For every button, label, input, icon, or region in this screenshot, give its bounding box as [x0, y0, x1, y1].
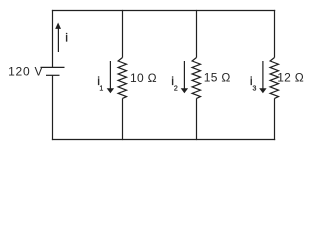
svg-text:1: 1 — [99, 86, 103, 93]
svg-text:10 Ω: 10 Ω — [130, 71, 157, 85]
svg-text:i: i — [65, 31, 68, 45]
svg-text:120 V: 120 V — [8, 65, 43, 79]
svg-text:2: 2 — [174, 86, 178, 93]
svg-text:12 Ω: 12 Ω — [277, 71, 304, 85]
svg-text:15 Ω: 15 Ω — [204, 71, 231, 85]
svg-text:3: 3 — [253, 86, 257, 93]
